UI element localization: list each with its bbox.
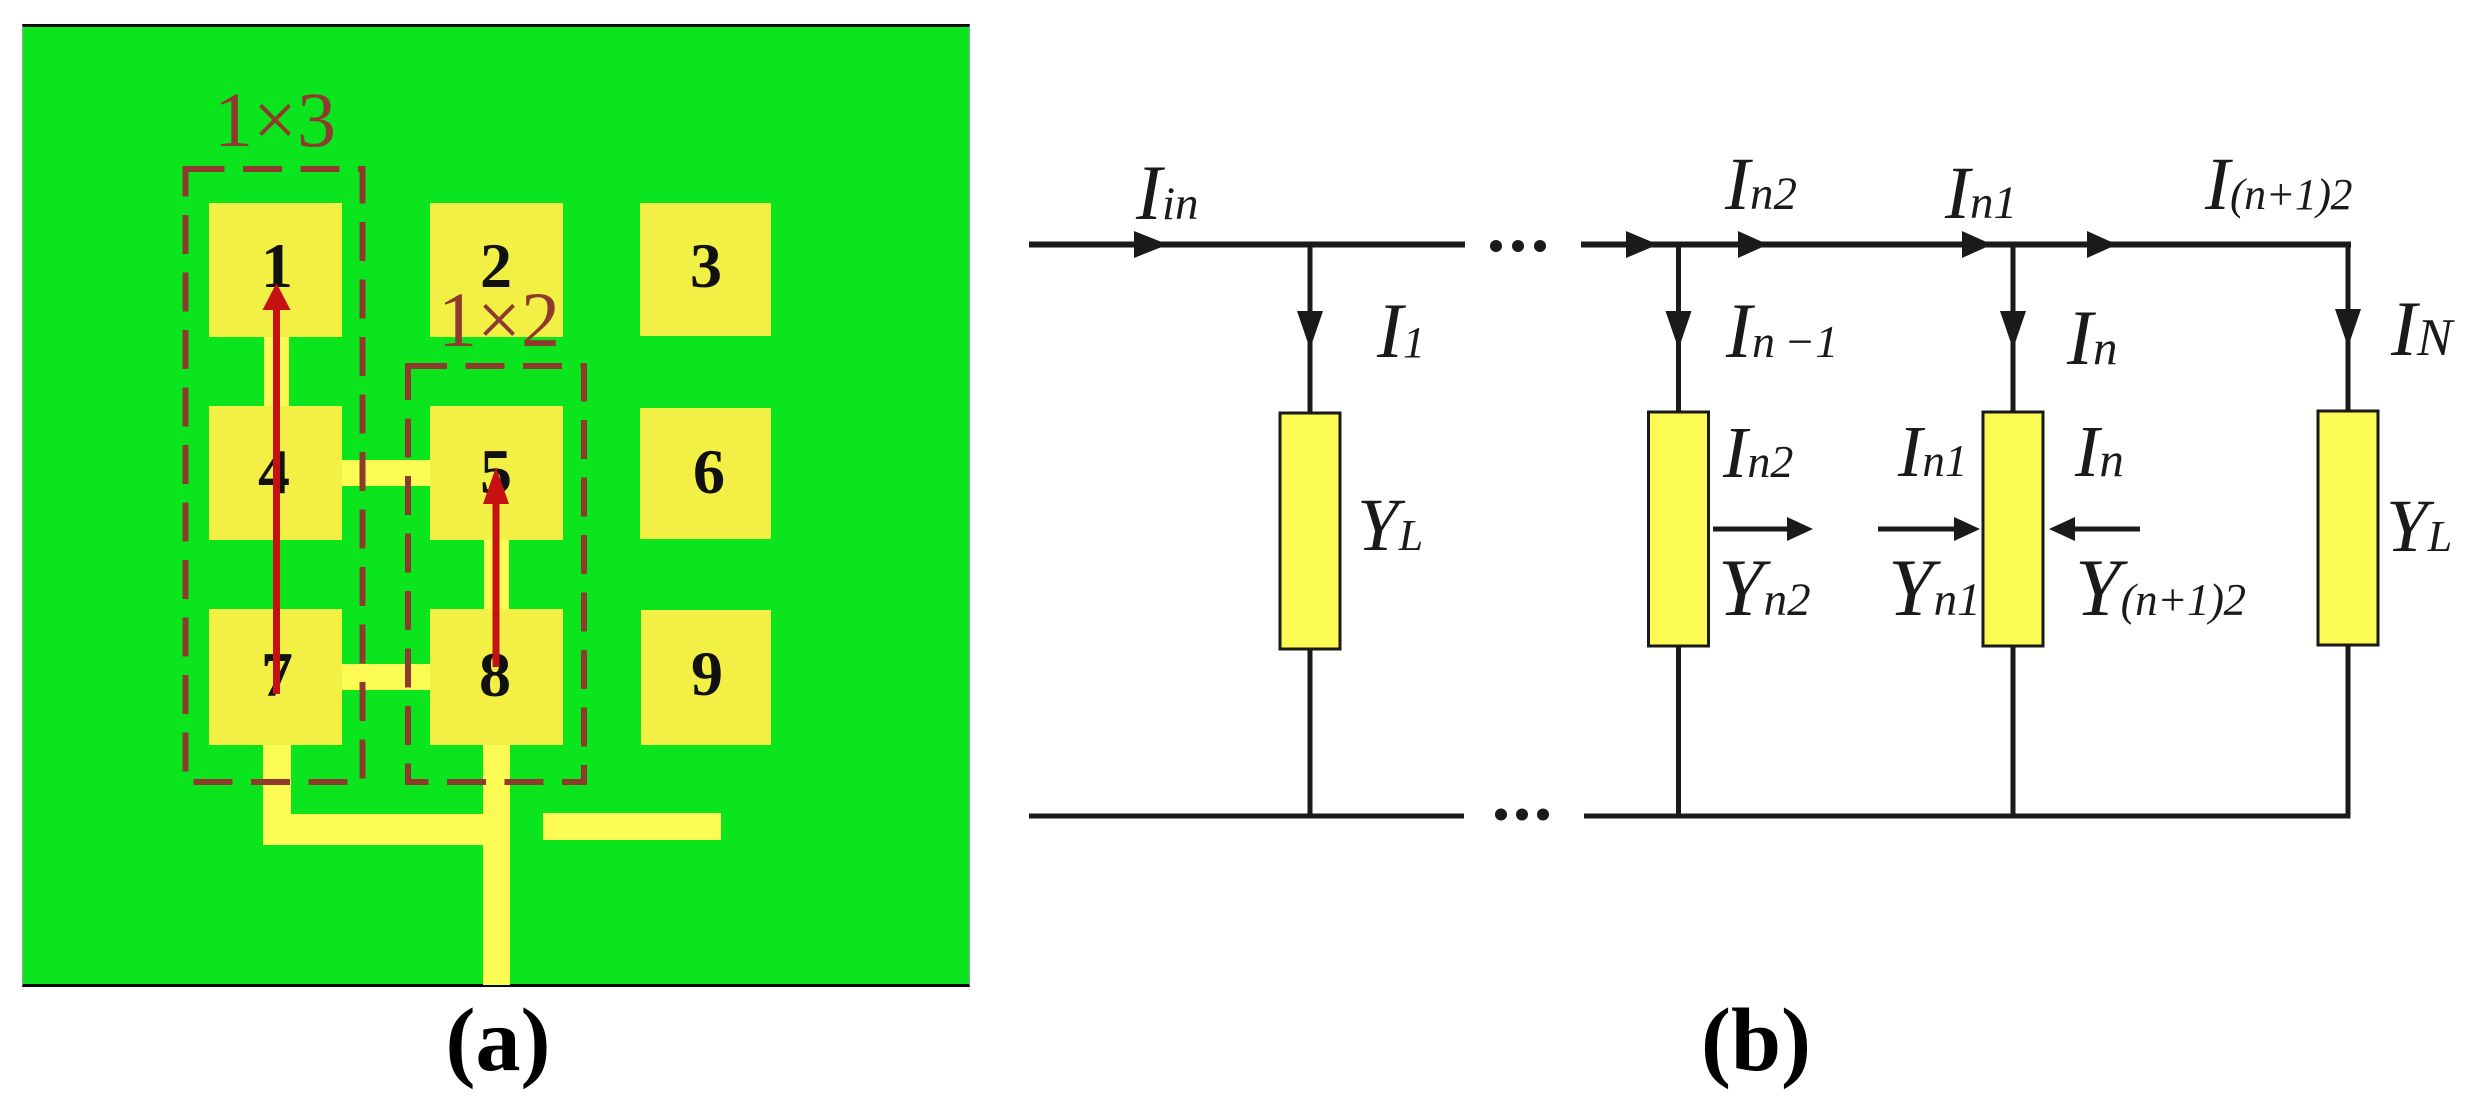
patch 7	[209, 609, 342, 745]
current label I_n2 mid	[1723, 416, 1793, 489]
branch 1 vertical wire bottom	[1308, 649, 1313, 816]
admittance label Y_L left	[1357, 488, 1423, 563]
patch 1	[209, 203, 342, 337]
top bus wire segment 1	[1029, 242, 1465, 248]
current label I_n mid	[2075, 415, 2124, 488]
patch 6	[640, 408, 771, 539]
arrowhead I_(n+1)2	[2087, 231, 2117, 258]
current label I_n1 top	[1945, 156, 2017, 231]
branch 1 vertical wire top	[1308, 247, 1313, 415]
admittance Y_n2 element	[1649, 412, 1709, 646]
top ellipsis dots	[1490, 240, 1502, 252]
patch number 6	[693, 440, 725, 504]
arrowhead I_n1	[1962, 231, 1992, 258]
branch 3 vertical wire top	[2011, 247, 2016, 414]
admittance label Y_L right	[2386, 489, 2452, 564]
arrowhead after dots	[1626, 231, 1658, 258]
admittance Y_L left	[1280, 413, 1340, 649]
coupling arrow Y_n2 (right)	[1713, 527, 1791, 532]
patch number 8	[479, 643, 511, 707]
feed line patch4-patch5	[338, 460, 434, 486]
current label I_(n+1)2 top	[2205, 147, 2352, 222]
branch 4 vertical wire top	[2346, 242, 2351, 415]
patch number 2	[480, 234, 512, 298]
patch number 4	[258, 440, 290, 504]
patch 9	[641, 610, 771, 745]
bottom bus wire segment 2	[1584, 814, 2351, 819]
main feed line below patch8	[483, 742, 510, 985]
current label I_1	[1377, 292, 1425, 370]
admittance label Y_(n+1)2	[2075, 547, 2245, 629]
current label I_n-1	[1726, 292, 1838, 370]
branch 4 down arrowhead	[2335, 309, 2361, 347]
caption (b)	[1701, 996, 1811, 1086]
caption (a)	[446, 996, 551, 1086]
bottom ellipsis dots	[1495, 809, 1507, 821]
patch number 3	[690, 234, 722, 298]
red arrow patch8 to patch5	[493, 500, 500, 667]
label 1x2	[438, 281, 560, 359]
coupling arrow Y_(n+1)2 (left)	[2073, 527, 2140, 532]
patch 3	[640, 203, 771, 336]
patch number 9	[691, 642, 723, 706]
branch 3 vertical wire bottom	[2011, 646, 2016, 816]
ground plane (green substrate)	[22, 24, 970, 987]
admittance label Y_n1	[1888, 547, 1981, 629]
admittance Y_n1 element	[1983, 412, 2043, 646]
feed line patch5-patch8	[484, 535, 509, 615]
patch number 7	[261, 643, 293, 707]
feed stub below patch7	[263, 742, 291, 818]
arrowhead I_n2	[1738, 231, 1768, 258]
dashed subarray box 1x2	[408, 366, 584, 782]
patch 5	[430, 406, 563, 540]
current label I_n1 mid	[1898, 415, 1967, 488]
branch 2 vertical wire top	[1676, 247, 1681, 414]
patch number 5	[480, 440, 512, 504]
branch 4 vertical wire bottom	[2346, 645, 2351, 818]
label 1x3	[214, 81, 336, 159]
bottom bus wire segment 1	[1029, 814, 1464, 819]
current label I_in	[1136, 154, 1199, 232]
branch 2 vertical wire bottom	[1676, 646, 1681, 816]
red arrow patch7 to patch1	[273, 305, 280, 694]
arrowhead I_in	[1134, 231, 1168, 258]
top bus wire segment 2	[1581, 242, 2351, 248]
current label I_n (branch 3)	[2067, 299, 2117, 377]
admittance Y_L right	[2318, 411, 2378, 645]
current label I_n2 top	[1725, 147, 1797, 222]
patch 4	[209, 406, 342, 540]
feed bus left	[263, 814, 510, 845]
dashed subarray box 1x3	[186, 169, 363, 782]
feed line patch1-patch4	[264, 330, 289, 412]
branch 1 down arrowhead	[1297, 311, 1323, 349]
admittance label Y_n2	[1718, 547, 1811, 629]
patch 8	[430, 609, 563, 745]
coupling arrow Y_n1 (right)	[1878, 527, 1958, 532]
branch 2 down arrowhead	[1666, 311, 1692, 349]
feed bus right	[543, 813, 721, 840]
patch 2	[430, 203, 563, 337]
current label I_N	[2391, 290, 2452, 368]
patch number 1	[261, 234, 293, 298]
branch 3 down arrowhead	[2000, 311, 2026, 349]
feed line patch7-patch8	[338, 664, 434, 690]
